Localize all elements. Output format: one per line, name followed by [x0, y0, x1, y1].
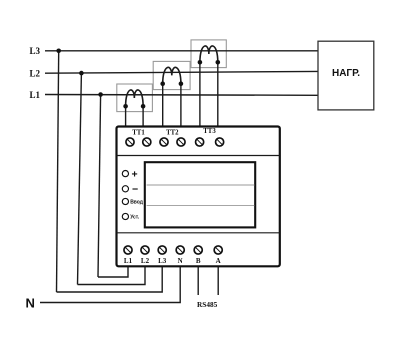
svg-text:TT1: TT1	[132, 129, 145, 136]
svg-text:L2: L2	[30, 69, 41, 79]
svg-text:RS485: RS485	[197, 300, 218, 309]
svg-text:TT3: TT3	[203, 128, 216, 135]
svg-text:L1: L1	[124, 257, 133, 265]
svg-text:Уст.: Уст.	[130, 215, 140, 221]
svg-text:L2: L2	[141, 257, 150, 265]
svg-text:TT2: TT2	[166, 129, 179, 136]
svg-text:B: B	[196, 257, 201, 265]
svg-text:L3: L3	[158, 257, 167, 265]
svg-text:−: −	[132, 183, 138, 195]
svg-text:НАГР.: НАГР.	[332, 68, 360, 79]
svg-text:L3: L3	[30, 46, 41, 56]
svg-text:N: N	[26, 296, 35, 311]
svg-text:Ввод: Ввод	[130, 200, 144, 206]
svg-text:N: N	[178, 257, 183, 265]
svg-text:+: +	[132, 169, 138, 181]
svg-text:L1: L1	[30, 90, 41, 100]
svg-text:A: A	[216, 257, 221, 265]
